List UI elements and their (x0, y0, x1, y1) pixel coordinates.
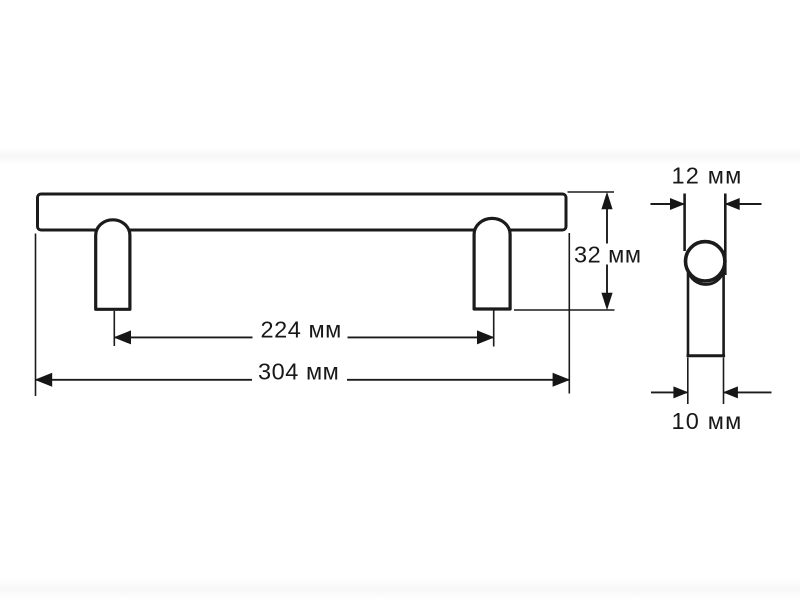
extension line 10mm right (723, 358, 725, 405)
post (end view) left side (687, 258, 690, 357)
arrowhead 10mm right (723, 386, 738, 398)
arrowhead 304mm right (553, 373, 571, 387)
arrowhead 12mm left (670, 198, 685, 210)
dimension line 304mm left segment (36, 379, 253, 381)
arrowhead 224mm left (114, 330, 132, 344)
arrowhead 10mm left (673, 386, 688, 398)
arrowhead 304mm left (35, 373, 53, 387)
extension line 304mm right (568, 233, 570, 394)
faint scan band top (0, 148, 800, 164)
extension line 224mm left post (113, 311, 115, 346)
joint arc under circle (688, 271, 724, 284)
arrowhead 32mm down (601, 293, 612, 311)
dimension line 32mm upper segment (606, 208, 608, 244)
extension line 32mm top (568, 191, 615, 193)
faint scan band bottom (0, 578, 800, 600)
handle bar (side view) (38, 194, 567, 230)
svg-text:304 мм: 304 мм (258, 359, 339, 385)
dimension line 10mm left segment (651, 391, 687, 393)
dimension line 32mm lower segment (606, 265, 608, 295)
dimension line 224mm left segment (114, 336, 252, 338)
arrowhead 12mm right (725, 198, 740, 210)
post (end view) bottom (687, 354, 726, 357)
dimension line 10mm right segment (724, 391, 772, 393)
dimension line 224mm right segment (348, 336, 494, 338)
svg-text:12 мм: 12 мм (672, 162, 743, 188)
dimension line 12mm left segment (651, 203, 684, 205)
extension line 32mm bottom (514, 309, 615, 311)
extension line 12mm right (724, 194, 727, 276)
dimension line 12mm right segment (726, 203, 762, 205)
extension line 10mm left (687, 358, 689, 405)
bar cross-section circle (end view) (686, 242, 725, 281)
arrowhead 224mm right (477, 330, 495, 344)
svg-text:10 мм: 10 мм (672, 408, 743, 434)
extension line 12mm left (683, 194, 686, 252)
arrowhead 32mm up (601, 192, 612, 210)
dimension line 304mm right segment (347, 379, 569, 381)
svg-text:32 мм: 32 мм (574, 242, 641, 268)
extension line 224mm right post (493, 310, 495, 347)
right post (side view) (474, 218, 510, 309)
post (end view) right side (722, 258, 725, 357)
extension line 304mm left (35, 234, 37, 397)
svg-text:224 мм: 224 мм (261, 317, 342, 343)
left post (side view) (96, 220, 130, 310)
